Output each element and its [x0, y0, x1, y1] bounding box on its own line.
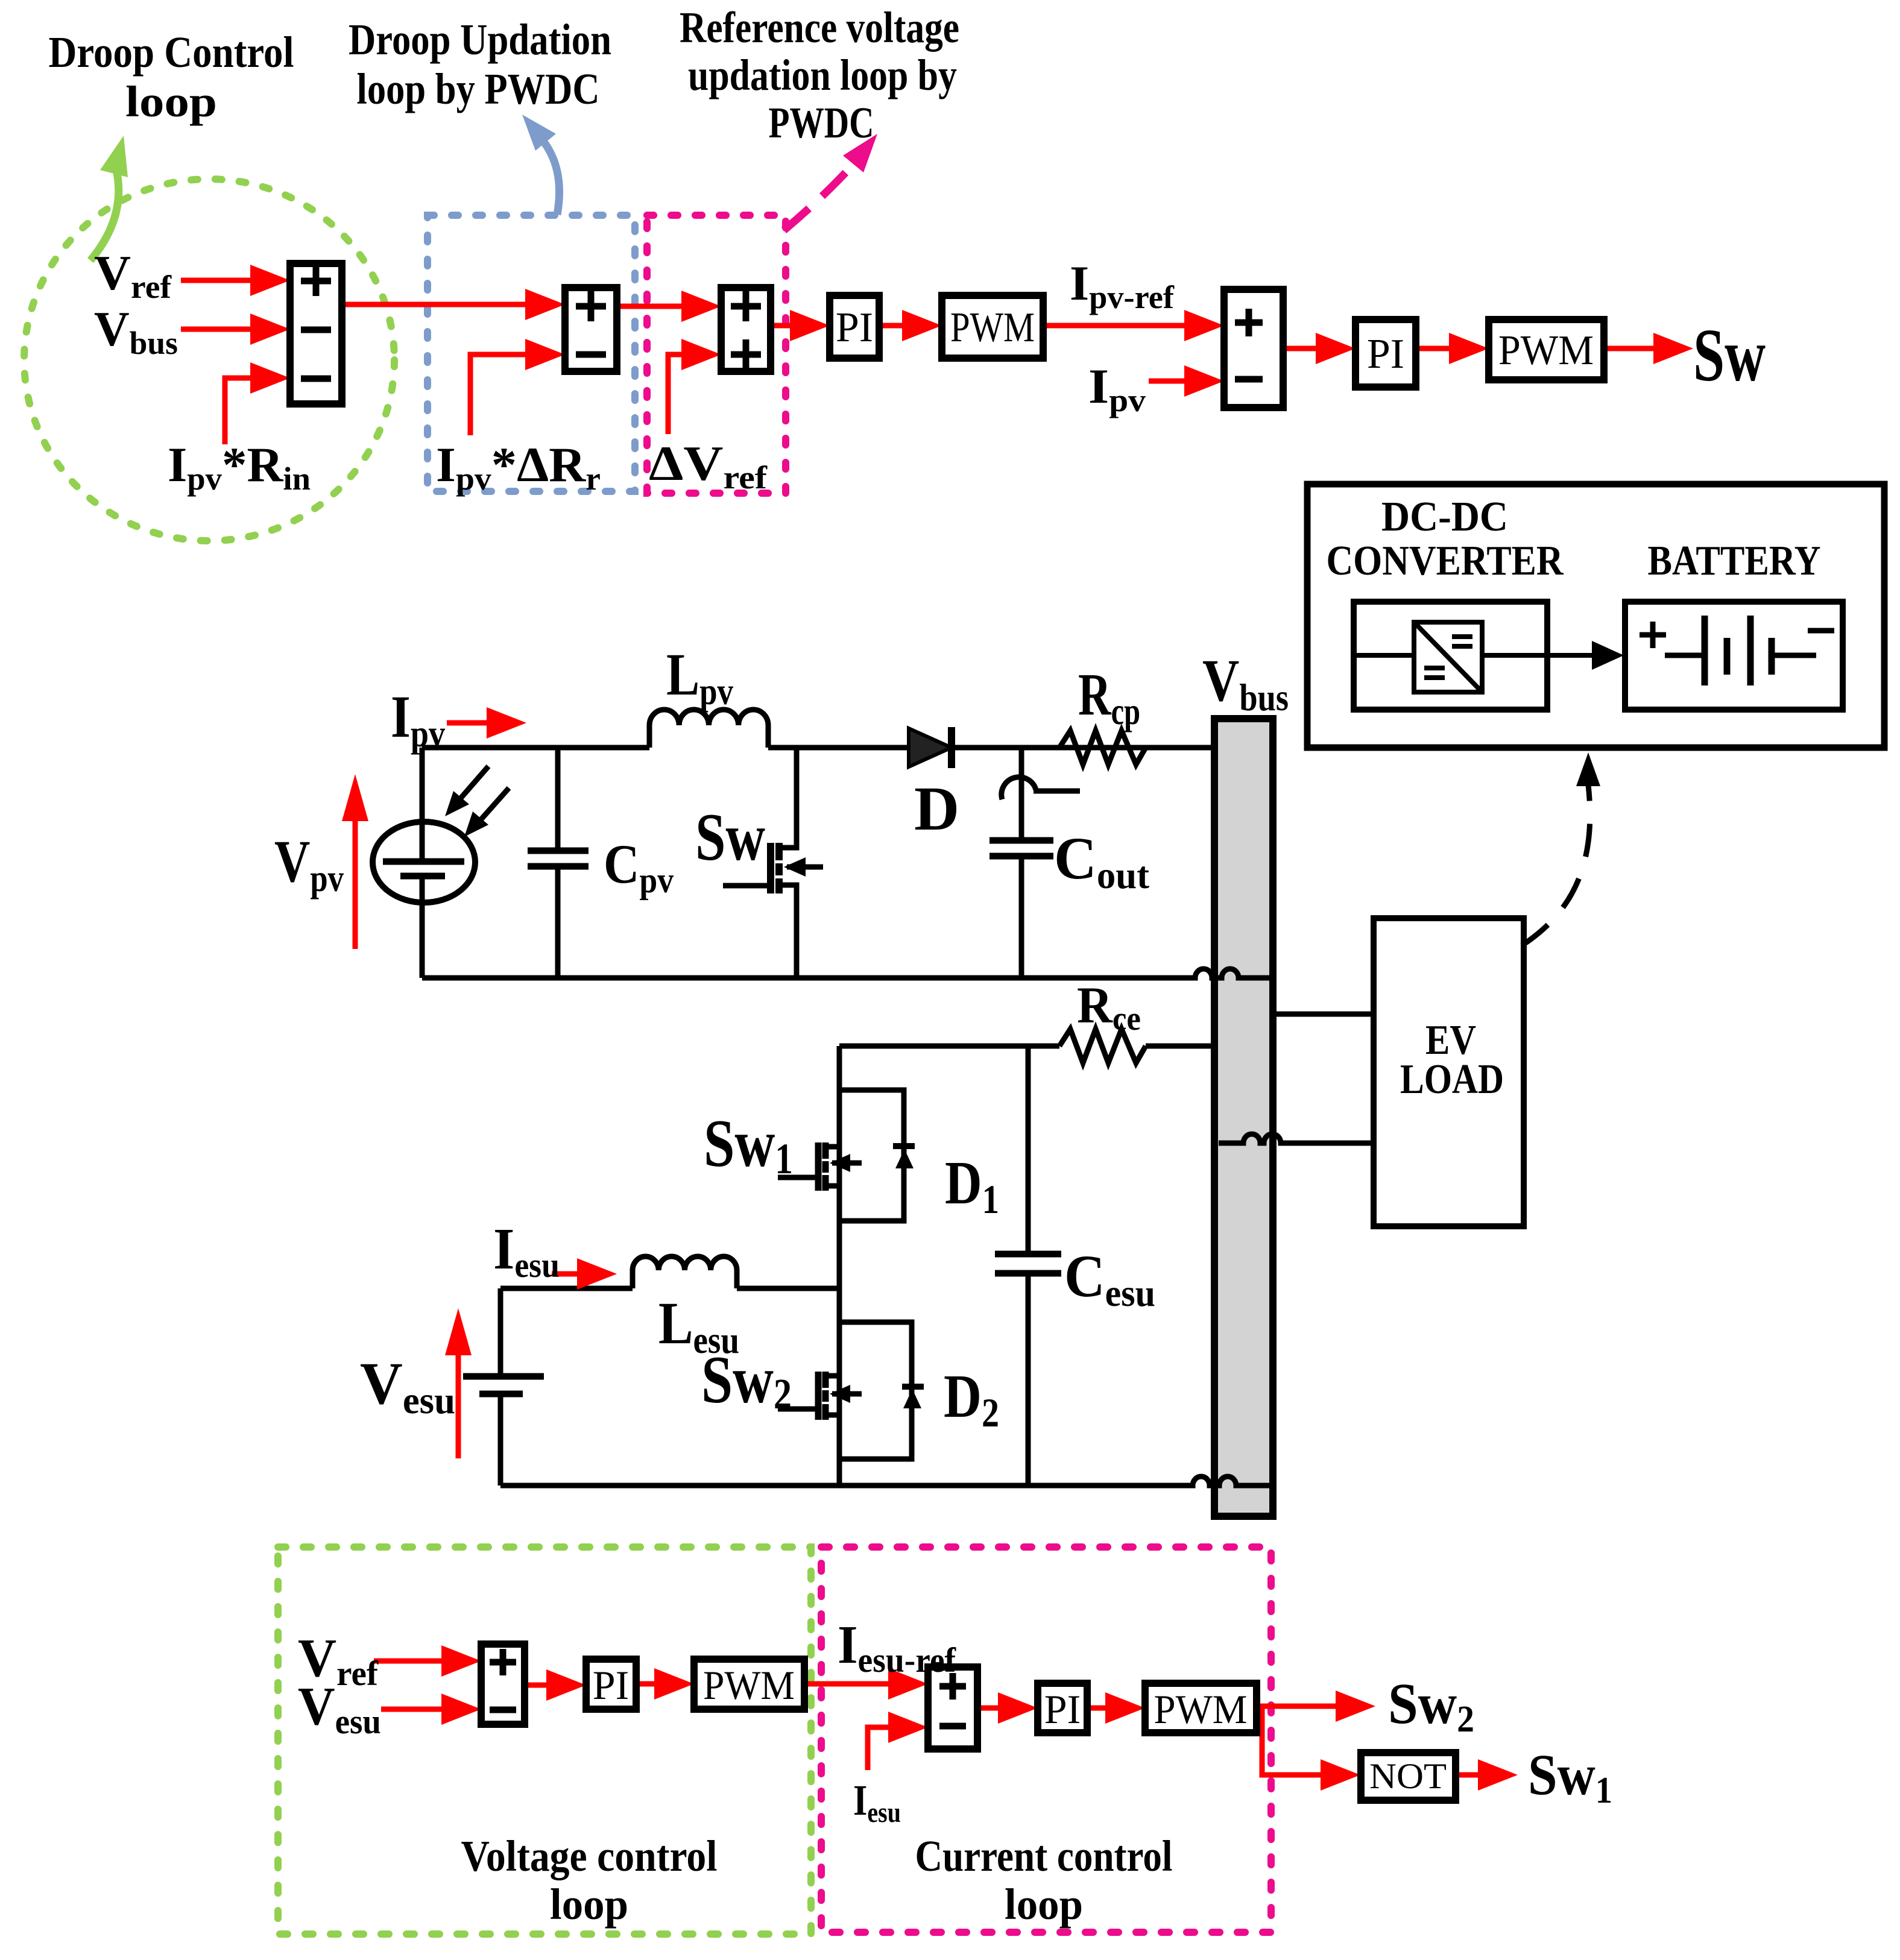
- svg-text:Droop Updation: Droop Updation: [349, 15, 611, 64]
- svg-text:PWM: PWM: [1498, 327, 1594, 374]
- svg-text:DC-DC: DC-DC: [1381, 494, 1508, 540]
- svg-text:loop: loop: [125, 77, 217, 126]
- svg-text:loop: loop: [1005, 1880, 1083, 1929]
- svg-text:loop by PWDC: loop by PWDC: [357, 65, 600, 113]
- svg-text:Current control: Current control: [915, 1832, 1173, 1880]
- svg-text:PI: PI: [836, 304, 873, 351]
- svg-text:BATTERY: BATTERY: [1648, 538, 1821, 584]
- svg-text:PI: PI: [1367, 331, 1404, 377]
- svg-text:Reference voltage: Reference voltage: [680, 3, 959, 52]
- svg-text:Sw: Sw: [695, 800, 765, 875]
- svg-text:Voltage control: Voltage control: [461, 1832, 718, 1880]
- svg-text:PWM: PWM: [1154, 1686, 1248, 1732]
- svg-text:PWDC: PWDC: [769, 98, 874, 147]
- svg-text:PI: PI: [1044, 1686, 1081, 1732]
- svg-text:NOT: NOT: [1369, 1756, 1447, 1796]
- svg-text:CONVERTER: CONVERTER: [1327, 538, 1564, 584]
- svg-text:Sw: Sw: [1693, 314, 1766, 397]
- svg-text:PI: PI: [593, 1662, 629, 1708]
- svg-text:PWM: PWM: [703, 1662, 795, 1708]
- svg-text:updation loop by: updation loop by: [688, 51, 957, 99]
- svg-text:loop: loop: [550, 1880, 628, 1929]
- svg-text:LOAD: LOAD: [1400, 1056, 1504, 1103]
- svg-text:PWM: PWM: [950, 304, 1035, 351]
- svg-text:D: D: [914, 774, 959, 843]
- svg-text:Droop Control: Droop Control: [49, 28, 294, 77]
